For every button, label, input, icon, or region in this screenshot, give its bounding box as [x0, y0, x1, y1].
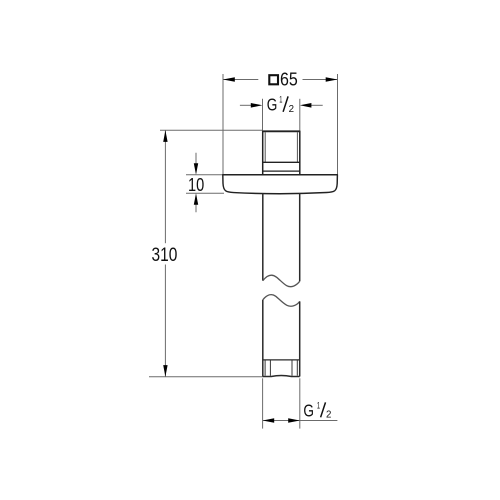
label square-65: [269, 70, 298, 90]
pipe lower segment left edge: [262, 300, 264, 377]
fitting top edge: [263, 130, 300, 132]
pipe upper segment right edge: [299, 193, 301, 281]
pipe upper segment left edge: [262, 193, 264, 280]
bottom fitting inner line 4: [296, 361, 298, 376]
pipe lower segment right edge: [299, 301, 301, 376]
dimension line 10 upper tail: [195, 153, 197, 165]
bottom fitting bottom outline with center arc: [263, 375, 300, 378]
dimension extension line left of square-65: [222, 74, 224, 174]
fitting thread bottom line: [263, 161, 300, 163]
arrow 10 bottom (points up): [194, 193, 198, 205]
arrow G1/2 bottom right (points right): [288, 418, 300, 423]
svg-text:10: 10: [188, 175, 204, 195]
bottom fitting inner line 3: [291, 361, 293, 376]
fitting right edge: [299, 131, 301, 175]
arrow G1/2 top left (points right): [251, 103, 263, 108]
bottom fitting inner line 2: [269, 361, 271, 376]
arrow right of square-65 dimension: [326, 77, 338, 82]
dimension line G1/2 bottom: [263, 420, 338, 422]
plate top edge (drawn over): [223, 174, 338, 176]
svg-text:1: 1: [279, 95, 282, 106]
dimension line square-65: [223, 79, 258, 81]
dimension line 10 lower tail: [195, 204, 197, 213]
extension line G1/2 bottom right: [299, 378, 301, 428]
label G1/2 bottom: [303, 401, 331, 421]
svg-text:G: G: [303, 401, 314, 421]
svg-text:G: G: [267, 94, 278, 114]
arrow G1/2 bottom left (points left): [263, 418, 275, 423]
dimension line 310: [164, 130, 166, 243]
bottom fitting inner line 1: [264, 361, 266, 376]
bottom thread fitting: [263, 360, 300, 377]
extension line G1/2 bottom left: [262, 378, 264, 428]
svg-text:310: 310: [152, 245, 178, 266]
pipe upper break squiggle: [263, 275, 300, 287]
fitting left edge: [262, 131, 264, 175]
dimension extension line right of square-65: [337, 74, 339, 174]
extension line 310 bottom: [149, 376, 263, 378]
dimension line G1/2 top right tail: [311, 104, 323, 106]
extension line G1/2 top left: [262, 99, 264, 131]
dimension line G1/2 top left tail: [240, 104, 252, 106]
fitting thread inner line left: [264, 132, 266, 162]
extension line 10 bottom: [186, 192, 224, 194]
label G1/2 top: [267, 94, 295, 115]
extension line 10 top: [186, 174, 223, 176]
arrow left of square-65 dimension: [223, 77, 235, 82]
extension line 310 top (ceiling plane): [160, 129, 263, 131]
fitting thread inner line right: [296, 132, 298, 162]
fitting top thread: outer body: [263, 131, 300, 175]
svg-text:2: 2: [326, 409, 332, 420]
bottom fitting top line: [263, 359, 300, 361]
arrow G1/2 top right (points left): [300, 103, 312, 108]
extension line G1/2 top right: [299, 99, 301, 131]
svg-text:1: 1: [317, 401, 320, 412]
arrow 10 top (points down): [194, 163, 198, 175]
arrow 310 bottom (points down): [163, 365, 167, 377]
fitting collar line: [263, 170, 300, 172]
svg-text:2: 2: [289, 104, 295, 115]
pipe lower break squiggle: [263, 295, 300, 307]
arrow 310 top (points up): [163, 130, 167, 142]
svg-text:65: 65: [280, 70, 298, 90]
escutcheon plate: [223, 175, 338, 194]
